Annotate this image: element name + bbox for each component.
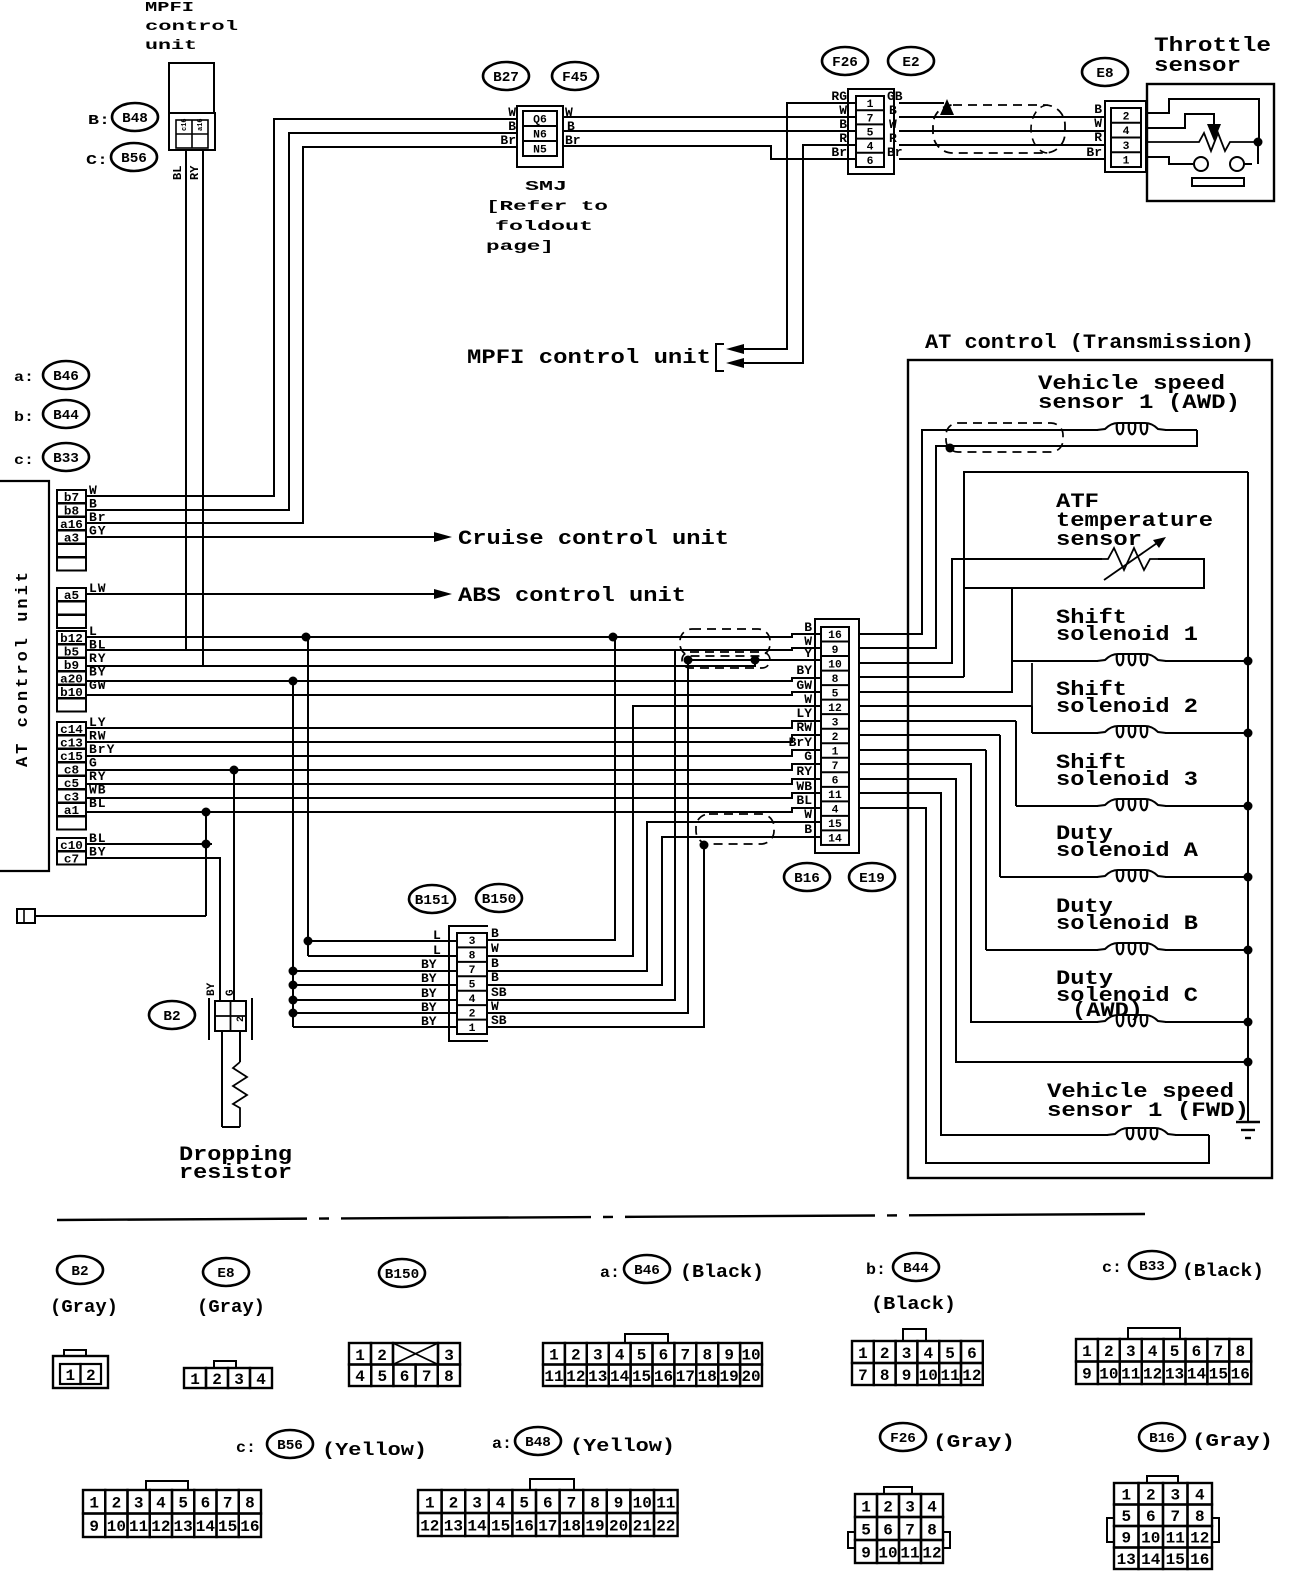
wire G from c8 junction down to B2	[233, 770, 235, 1001]
svg-text:3: 3	[832, 717, 839, 729]
connector B16 oval (bottom)	[1139, 1423, 1185, 1451]
svg-text:B: B	[508, 119, 516, 134]
svg-text:9: 9	[89, 1518, 99, 1536]
junction on c8 wire	[230, 766, 239, 775]
wire RY from MPFI unit down to pin b9	[202, 150, 204, 666]
AT control unit pin b9	[57, 658, 86, 673]
wire B from SMJ to AT pin b8	[86, 133, 518, 510]
svg-text:4: 4	[156, 1495, 166, 1513]
svg-text:18: 18	[698, 1368, 717, 1386]
AT control unit pin b10	[57, 685, 86, 700]
AT control unit pin c7	[57, 852, 86, 867]
AT control unit blank pin	[57, 558, 86, 571]
connector B33 pin view	[1076, 1328, 1251, 1384]
svg-text:solenoid B: solenoid B	[1056, 913, 1198, 936]
Throttle sensor label	[1154, 35, 1271, 78]
svg-text:Br: Br	[1086, 145, 1102, 160]
svg-text:B33: B33	[53, 451, 79, 467]
svg-text:control: control	[145, 19, 238, 35]
riser BY from a20 junction to B151 BY rows	[292, 681, 294, 1027]
svg-text:solenoid 1: solenoid 1	[1056, 624, 1198, 647]
connector F45 oval	[552, 62, 598, 90]
vehicle speed sensor 1 AWD coil L	[1097, 423, 1166, 430]
svg-text:16: 16	[515, 1517, 534, 1535]
svg-text:a:: a:	[600, 1264, 620, 1282]
wire from earth box to BL riser	[35, 915, 206, 917]
riser from b12 junction to B151 rows 3 and 8	[307, 637, 309, 956]
wire BY from c7 down to B2	[86, 858, 220, 1001]
svg-text:7: 7	[1170, 1508, 1180, 1526]
connector B151 oval	[409, 885, 455, 913]
svg-text:E8: E8	[217, 1266, 234, 1282]
AT control unit pin c5	[57, 776, 86, 791]
svg-text:12: 12	[962, 1367, 981, 1385]
svg-text:(Gray): (Gray)	[197, 1298, 265, 1318]
svg-text:8: 8	[1235, 1343, 1245, 1361]
svg-text:WB: WB	[796, 779, 812, 794]
svg-text:19: 19	[720, 1368, 739, 1386]
svg-text:17: 17	[538, 1517, 557, 1535]
connector ref c: B33 oval (bottom)	[1102, 1251, 1175, 1279]
VSS AWD return wire to B16 pin 9	[859, 430, 1197, 648]
svg-text:B44: B44	[903, 1261, 929, 1277]
connector F26 oval	[822, 47, 868, 75]
junction DSC on bus	[1244, 1018, 1253, 1027]
svg-text:R: R	[1094, 130, 1102, 145]
svg-text:LY: LY	[796, 706, 812, 721]
svg-text:4: 4	[496, 1494, 506, 1512]
junction at ground node	[1244, 1058, 1253, 1067]
svg-text:B: B	[1094, 102, 1102, 117]
svg-text:9: 9	[861, 1544, 871, 1562]
ground symbol	[1236, 1122, 1260, 1138]
svg-text:1: 1	[1121, 1487, 1131, 1505]
svg-text:12: 12	[566, 1368, 585, 1386]
svg-text:5: 5	[867, 127, 874, 139]
throttle sensor switch contact left	[1194, 157, 1208, 171]
AT control unit pin a16	[57, 517, 86, 532]
svg-text:B56: B56	[121, 151, 147, 167]
connector B27 oval	[483, 62, 529, 90]
svg-text:3: 3	[1126, 1343, 1136, 1361]
AT control unit pin b7	[57, 490, 86, 505]
svg-text:11: 11	[1166, 1530, 1185, 1548]
svg-text:1: 1	[549, 1347, 559, 1365]
svg-text:5: 5	[178, 1495, 188, 1513]
AT control unit pin a1	[57, 803, 86, 818]
connector E8 pin view	[184, 1361, 272, 1389]
svg-text:6: 6	[867, 156, 874, 168]
svg-text:13: 13	[444, 1517, 463, 1535]
connector ref c: B33 oval	[14, 443, 89, 471]
shield wire into pin 10	[688, 659, 755, 661]
svg-text:5: 5	[377, 1368, 387, 1386]
svg-text:15: 15	[1166, 1551, 1185, 1569]
svg-text:B: B	[491, 956, 499, 971]
Duty solenoid C (AWD) label	[1056, 968, 1198, 1023]
svg-text:10: 10	[919, 1367, 938, 1385]
wire GB with up arrow	[899, 102, 944, 104]
wire L from b12 to B16 pin 16	[86, 634, 821, 637]
wire BY into row 5	[293, 984, 457, 986]
shield drain junction	[946, 444, 955, 453]
svg-text:15: 15	[218, 1518, 237, 1536]
AT control unit bracket	[0, 481, 49, 871]
AT control unit blank pin	[57, 544, 86, 557]
svg-text:6: 6	[543, 1494, 553, 1512]
AT control unit pin c15	[57, 749, 86, 764]
body earth connector box	[17, 909, 35, 923]
svg-text:9: 9	[1121, 1530, 1131, 1548]
AT control transmission box	[908, 360, 1272, 1178]
svg-text:B48: B48	[122, 111, 148, 127]
svg-text:4: 4	[1195, 1487, 1205, 1505]
svg-text:BY: BY	[206, 982, 218, 996]
svg-text:11: 11	[1121, 1366, 1140, 1384]
feed wire of duty solenoid C from B16 pin 7	[859, 764, 1098, 1022]
wire from coil to ground bus	[1165, 949, 1248, 951]
throttle sensor wiper wire W	[1147, 114, 1214, 128]
svg-text:11: 11	[828, 790, 842, 802]
wire BY into row 4	[293, 999, 457, 1001]
svg-text:9: 9	[902, 1367, 912, 1385]
svg-text:4: 4	[927, 1498, 937, 1516]
wire B from B151 row 7 up to B16 pin 15	[487, 822, 821, 971]
connector F26/E2	[848, 89, 894, 174]
wire RG from F26/E2 down to MPFI control unit arrow	[744, 103, 856, 349]
AT control unit blank pin	[57, 615, 86, 628]
MPFI control unit box	[169, 63, 215, 150]
connector B151/B150	[449, 926, 488, 1041]
svg-text:7: 7	[681, 1347, 691, 1365]
throttle sensor idle contact bar	[1192, 178, 1244, 186]
Shift solenoid 3 label	[1056, 752, 1198, 792]
svg-text:7: 7	[422, 1368, 432, 1386]
svg-text:(Yellow): (Yellow)	[570, 1437, 675, 1457]
junction row5	[289, 981, 298, 990]
svg-text:W: W	[1094, 116, 1102, 131]
ATF return wire to B16 pin 8	[964, 559, 1204, 588]
svg-text:B150: B150	[385, 1267, 419, 1283]
connector B150 oval	[476, 884, 522, 912]
wire from coil to ground bus	[1165, 876, 1248, 878]
junction row7	[289, 967, 298, 976]
svg-text:Br: Br	[500, 133, 516, 148]
svg-text:16: 16	[654, 1368, 673, 1386]
connector ref a: B46 oval (bottom)	[600, 1255, 670, 1283]
connector B2 oval	[149, 1001, 195, 1029]
svg-text:B2: B2	[71, 1264, 88, 1280]
AT control unit pin a5	[57, 588, 86, 603]
svg-text:(Black): (Black)	[1182, 1262, 1264, 1282]
svg-text:RY: RY	[796, 764, 812, 779]
svg-text:8: 8	[444, 1368, 454, 1386]
svg-text:7: 7	[832, 761, 839, 773]
connector B44 pin view	[852, 1329, 983, 1385]
svg-text:3: 3	[1123, 141, 1130, 153]
svg-text:c:: c:	[236, 1439, 256, 1457]
svg-text:(Gray): (Gray)	[1192, 1432, 1273, 1452]
AT control unit pin b5	[57, 645, 86, 660]
wire BY into row 7	[293, 970, 457, 972]
svg-text:2: 2	[883, 1498, 893, 1516]
svg-text:8: 8	[245, 1495, 255, 1513]
Duty solenoid B label	[1056, 896, 1198, 936]
svg-text:B: B	[491, 970, 499, 985]
svg-text:B: B	[804, 822, 812, 837]
svg-text:14: 14	[1141, 1551, 1161, 1569]
svg-text:MPFI: MPFI	[145, 0, 194, 16]
junction at row3	[304, 937, 313, 946]
svg-text:13: 13	[1117, 1551, 1136, 1569]
svg-text:sensor 1 (AWD): sensor 1 (AWD)	[1038, 392, 1240, 415]
svg-text:Br: Br	[831, 145, 847, 160]
svg-text:17: 17	[676, 1368, 695, 1386]
connector B16/E19	[815, 619, 859, 853]
coil of Shift solenoid 2	[1097, 726, 1166, 733]
throttle sensor internal wire B	[1147, 99, 1259, 141]
svg-text:sensor: sensor	[1154, 55, 1241, 78]
svg-text:12: 12	[922, 1544, 941, 1562]
svg-text:E8: E8	[1096, 66, 1113, 82]
svg-text:W: W	[508, 105, 516, 120]
svg-text:13: 13	[174, 1518, 193, 1536]
wire from DSC coil to ground bus	[1165, 1021, 1248, 1023]
svg-text:2: 2	[1123, 111, 1130, 123]
svg-text:4: 4	[1148, 1343, 1158, 1361]
AT control unit blank pin	[57, 817, 86, 830]
svg-text:12: 12	[420, 1517, 439, 1535]
Shift solenoid 2 label	[1056, 679, 1198, 719]
junction on ground bus	[1244, 729, 1253, 738]
svg-text:ABS control unit: ABS control unit	[458, 585, 686, 608]
Duty solenoid A label	[1056, 823, 1198, 863]
svg-text:6: 6	[201, 1495, 211, 1513]
svg-text:3: 3	[134, 1495, 144, 1513]
svg-text:10: 10	[633, 1494, 652, 1512]
svg-text:19: 19	[585, 1517, 604, 1535]
svg-text:4: 4	[256, 1371, 266, 1389]
Vehicle speed sensor 1 (AWD) label	[1038, 373, 1240, 415]
wire Br from SMJ to F26/E2 pin 4	[562, 146, 856, 159]
svg-text:F45: F45	[562, 70, 588, 86]
svg-text:c16: c16	[181, 118, 189, 131]
svg-text:BrY: BrY	[789, 735, 813, 750]
svg-text:sensor 1 (FWD): sensor 1 (FWD)	[1047, 1100, 1249, 1123]
ATF sensor enclosure box	[964, 472, 1248, 677]
svg-text:8: 8	[590, 1494, 600, 1512]
svg-text:1: 1	[858, 1345, 868, 1363]
connector B56 pin view	[83, 1481, 261, 1537]
svg-text:(Yellow): (Yellow)	[322, 1441, 427, 1461]
svg-text:9: 9	[832, 645, 839, 657]
svg-text:3: 3	[234, 1371, 244, 1389]
wire BY into row 2	[293, 1012, 457, 1014]
svg-text:6: 6	[1146, 1508, 1156, 1526]
svg-text:B46: B46	[634, 1263, 660, 1279]
svg-text:a:: a:	[14, 370, 34, 386]
AT control unit pin a3	[57, 531, 86, 546]
AT control unit pin c10	[57, 838, 86, 853]
svg-text:unit: unit	[145, 38, 197, 54]
Dropping resistor label	[179, 1144, 292, 1185]
svg-text:RW: RW	[796, 720, 812, 735]
junction on ground bus	[1244, 802, 1253, 811]
junction on a20 wire	[289, 677, 298, 686]
svg-text:N5: N5	[533, 144, 547, 156]
svg-text:3: 3	[469, 936, 476, 948]
junction on c10 wire	[202, 840, 211, 849]
svg-text:8: 8	[832, 674, 839, 686]
svg-text:B16: B16	[1149, 1431, 1175, 1447]
svg-text:BY: BY	[421, 957, 437, 972]
wire RY from c5 to B16 pin 6	[86, 779, 821, 784]
svg-text:BL: BL	[796, 793, 812, 808]
svg-text:BY: BY	[421, 986, 437, 1001]
svg-text:4: 4	[867, 142, 874, 154]
svg-text:2: 2	[449, 1494, 459, 1512]
svg-text:solenoid A: solenoid A	[1056, 840, 1198, 863]
svg-text:Q6: Q6	[533, 114, 547, 126]
shield around VSS AWD wires (dashed)	[946, 423, 1063, 452]
connector ref c: B56 oval (bottom)	[236, 1430, 313, 1458]
svg-text:BY: BY	[421, 971, 437, 986]
svg-text:W: W	[889, 117, 897, 132]
AT control unit pin c3	[57, 790, 86, 805]
svg-text:G: G	[225, 989, 237, 996]
svg-text:5: 5	[469, 979, 476, 991]
svg-text:2: 2	[469, 1008, 476, 1020]
AT control unit pin b8	[57, 504, 86, 519]
svg-text:3: 3	[1170, 1487, 1180, 1505]
svg-text:W: W	[804, 807, 812, 822]
ground feed wire from B16 pin 6	[859, 779, 1248, 1062]
svg-text:21: 21	[633, 1517, 652, 1535]
svg-text:10: 10	[741, 1347, 760, 1365]
svg-text:14: 14	[610, 1368, 630, 1386]
connector ref b: B44 oval	[14, 400, 89, 428]
SMJ label text	[486, 179, 608, 255]
ATF feed wire from B16 pin 10	[859, 559, 1102, 663]
svg-text:6: 6	[659, 1347, 669, 1365]
coil of Shift solenoid 3	[1097, 799, 1166, 806]
wire W from E2 to E8 pin 4	[899, 130, 1105, 132]
svg-text:4: 4	[615, 1347, 625, 1365]
riser BL from a1 to c10 to body earth box	[205, 812, 207, 916]
svg-text:3: 3	[472, 1494, 482, 1512]
svg-text:1: 1	[861, 1498, 871, 1516]
svg-text:2: 2	[86, 1367, 96, 1385]
svg-text:12: 12	[1143, 1366, 1162, 1384]
svg-text:W: W	[804, 692, 812, 707]
wire GW from b10 to B16 pin 5	[86, 692, 821, 695]
connector SMJ	[517, 106, 563, 167]
svg-text:RY: RY	[188, 165, 202, 180]
svg-text:7: 7	[469, 965, 476, 977]
svg-text:GB: GB	[887, 89, 903, 104]
svg-text:F26: F26	[890, 1431, 916, 1447]
connector B150 oval (bottom)	[379, 1259, 425, 1287]
svg-text:5: 5	[832, 688, 839, 700]
svg-text:2: 2	[377, 1347, 387, 1365]
wire from coil to ground bus	[1165, 732, 1248, 734]
svg-text:7: 7	[567, 1494, 577, 1512]
connector B2 oval (bottom)	[57, 1256, 103, 1284]
wire R from F26/E2 down to MPFI control unit arrow	[744, 145, 856, 363]
svg-text:Y: Y	[804, 646, 812, 661]
svg-text:resistor: resistor	[179, 1162, 292, 1185]
svg-text:11: 11	[656, 1494, 675, 1512]
shield capsule over pins 16/9 (dashed)	[680, 629, 770, 656]
wire L into B151 row 8	[308, 955, 457, 957]
svg-text:c7: c7	[64, 853, 79, 867]
svg-text:1: 1	[355, 1347, 365, 1365]
AT control unit blank pin	[57, 602, 86, 615]
svg-text:(Gray): (Gray)	[50, 1298, 118, 1318]
throttle sensor wire Br to switch	[1147, 157, 1193, 164]
connector E8 oval	[1082, 58, 1128, 86]
svg-text:Cruise control unit: Cruise control unit	[458, 528, 729, 551]
svg-text:4: 4	[469, 994, 476, 1006]
junction on ground bus	[1244, 946, 1253, 955]
svg-text:B44: B44	[53, 408, 79, 424]
svg-text:BY: BY	[796, 663, 812, 678]
wire W from SMJ to AT pin b7	[86, 119, 518, 496]
ATF thermistor RT	[1146, 141, 1148, 143]
svg-text:B: B	[889, 103, 897, 118]
svg-text:page]: page]	[486, 239, 554, 255]
wire B from E2 to E8 pin 2	[899, 116, 1105, 118]
wire BL from c10	[86, 843, 212, 845]
svg-text:B27: B27	[493, 70, 519, 86]
connector B16 pin view	[1107, 1476, 1219, 1569]
svg-text:solenoid 2: solenoid 2	[1056, 696, 1198, 719]
svg-text:B: B	[839, 117, 847, 132]
svg-text:3: 3	[902, 1345, 912, 1363]
svg-text:SB: SB	[491, 985, 507, 1000]
svg-text:W: W	[491, 999, 499, 1014]
svg-text:3: 3	[905, 1498, 915, 1516]
svg-text:W: W	[491, 941, 499, 956]
svg-text:2: 2	[1104, 1343, 1114, 1361]
svg-text:16: 16	[1190, 1551, 1209, 1569]
connector ref b: B44 oval (bottom)	[866, 1253, 939, 1281]
svg-text:B: B	[804, 620, 812, 635]
svg-text:Br: Br	[887, 145, 903, 160]
wire W from SMJ to F26/E2 pin 7	[562, 116, 856, 118]
connector E8	[1105, 101, 1146, 172]
svg-text:4: 4	[832, 805, 839, 817]
svg-text:1: 1	[1082, 1343, 1092, 1361]
wire BL from a1 to B16 pin 4	[86, 808, 821, 812]
connector E2 oval	[888, 47, 934, 75]
svg-text:2: 2	[571, 1347, 581, 1365]
junction SS1 on bus	[1244, 657, 1253, 666]
svg-text:B2: B2	[163, 1009, 180, 1025]
svg-text:11: 11	[941, 1367, 960, 1385]
svg-text:16: 16	[828, 630, 842, 642]
svg-text:1: 1	[1123, 156, 1130, 168]
dash-dot separator line	[57, 1214, 1145, 1220]
AT control unit blank pin	[57, 699, 86, 712]
wire W from B151 row 8 up to B16 pin 12	[487, 706, 821, 956]
svg-text:12: 12	[1190, 1530, 1209, 1548]
svg-text:12: 12	[151, 1518, 170, 1536]
svg-text:RG: RG	[831, 89, 847, 104]
coil of duty solenoid C	[1097, 1015, 1166, 1022]
connector B150 pin view	[349, 1343, 460, 1386]
svg-text:4: 4	[923, 1345, 933, 1363]
